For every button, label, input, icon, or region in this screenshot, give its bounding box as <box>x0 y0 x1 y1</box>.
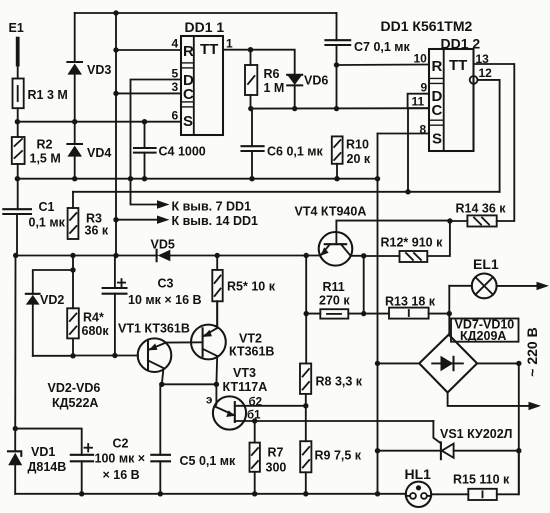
node C1/R2 on bus1 <box>15 176 20 181</box>
diode VD4 <box>74 122 76 144</box>
diode VD2 and resistor R4 loop <box>72 256 74 309</box>
svg-text:12: 12 <box>479 66 493 80</box>
svg-text:C3: C3 <box>158 277 174 291</box>
IC DD1.1 <box>181 36 223 135</box>
svg-text:HL1: HL1 <box>405 466 432 482</box>
svg-text:R5* 10 к: R5* 10 к <box>227 280 276 294</box>
svg-text:C: C <box>183 86 194 103</box>
svg-text:10: 10 <box>414 52 428 66</box>
svg-text:VD2-VD6: VD2-VD6 <box>48 381 101 395</box>
svg-text:6: 6 <box>172 109 179 123</box>
capacitor C7 <box>336 13 338 40</box>
node supply riser / bus3 <box>113 253 118 258</box>
output bubble pin12 <box>470 76 478 84</box>
wire pin11 riser to bus2 <box>407 108 409 192</box>
label box VD7-VD10 <box>451 319 519 342</box>
svg-text:11: 11 <box>412 95 425 109</box>
svg-text:DD1 2: DD1 2 <box>441 36 481 52</box>
svg-text:VD6: VD6 <box>304 74 328 88</box>
wire bridge right <box>477 362 519 364</box>
wire VT1 emitter to VT2 base <box>166 341 203 343</box>
svg-text:C: C <box>432 102 443 119</box>
wire ground bus1 <box>17 178 378 180</box>
resistor R14 <box>467 215 496 226</box>
wire VT4 emitter / R11 / R8 riser <box>305 256 307 364</box>
wire pin13 output to R14 <box>474 64 515 221</box>
diode VD3 <box>74 13 76 62</box>
resistor R11 <box>320 309 348 318</box>
svg-text:VD5: VD5 <box>151 238 175 252</box>
transistor VT4 <box>319 232 353 266</box>
pin 5 wire (D input) to ground arrow <box>131 80 182 205</box>
svg-text:× 16 В: × 16 В <box>103 468 140 482</box>
electrode E1 <box>16 39 20 65</box>
node bus1 end / S riser <box>375 176 380 181</box>
svg-text:С5 0,1 мк: С5 0,1 мк <box>180 454 237 468</box>
wire EL1/R13/bridge riser <box>448 286 450 335</box>
wire bottom ground bus <box>15 493 406 495</box>
wire C2 tap <box>15 429 82 455</box>
svg-text:0,1 мк: 0,1 мк <box>29 216 66 230</box>
svg-text:R11: R11 <box>323 280 345 294</box>
resistor R5 <box>216 256 218 270</box>
svg-text:К выв. 7 DD1: К выв. 7 DD1 <box>172 200 252 214</box>
svg-text:КТ117А: КТ117А <box>223 380 268 394</box>
svg-text:1,5 М: 1,5 М <box>30 152 61 166</box>
svg-text:R12* 910 к: R12* 910 к <box>381 236 444 250</box>
svg-text:C2: C2 <box>113 437 129 451</box>
svg-text:270 к: 270 к <box>319 294 350 308</box>
wire VT3 emitter riser <box>215 384 216 406</box>
svg-text:КД522А: КД522А <box>52 396 98 410</box>
wire K vyv.14 arrow from supply riser <box>116 219 158 221</box>
resistor R8 <box>300 364 311 394</box>
svg-text:VT1 КТ361В: VT1 КТ361В <box>118 322 190 336</box>
svg-text:TT: TT <box>449 57 467 74</box>
bridge VD7-VD10 <box>419 335 477 393</box>
svg-text:R2: R2 <box>37 138 53 152</box>
wire ground riser x=377.5 <box>377 134 379 494</box>
wire DD1.2 pin10 (R input) <box>337 64 430 67</box>
wire bridge left to ground riser <box>378 362 420 364</box>
svg-text:Д814В: Д814В <box>28 460 67 474</box>
svg-text:~ 220 В: ~ 220 В <box>524 327 540 376</box>
wire supply riser x=116 <box>115 13 117 256</box>
resistor R13 <box>364 313 389 315</box>
svg-text:9: 9 <box>421 81 428 95</box>
svg-text:R6: R6 <box>264 67 280 81</box>
wire VT4 base to R12/R14 junction <box>336 221 450 245</box>
svg-text:R: R <box>183 43 194 60</box>
IC DD1.2 <box>429 49 474 151</box>
svg-text:КД209А: КД209А <box>460 329 506 343</box>
resistor R1 <box>13 79 24 109</box>
wire VT2 emitter to R5 <box>216 301 218 328</box>
resistor R4 <box>67 308 79 338</box>
capacitor C1 <box>3 208 31 210</box>
capacitor C5 <box>159 384 161 455</box>
svg-text:VT2: VT2 <box>239 332 262 346</box>
wire top supply bus <box>75 12 337 14</box>
svg-text:300: 300 <box>266 461 287 475</box>
svg-text:C4 1000: C4 1000 <box>159 145 206 159</box>
svg-text:10 мк × 16 В: 10 мк × 16 В <box>128 293 202 307</box>
svg-text:680к: 680к <box>82 324 110 338</box>
svg-text:C7 0,1 мк: C7 0,1 мк <box>354 40 411 54</box>
wire VT4 collector to R12 <box>350 255 363 257</box>
resistor R9 <box>300 441 311 472</box>
svg-text:S: S <box>432 131 442 148</box>
wire pin12 output to bus2 <box>478 80 500 192</box>
capacitor C2 <box>71 454 93 456</box>
svg-text:VS1 КУ202Л: VS1 КУ202Л <box>440 427 512 441</box>
svg-text:1 М: 1 М <box>264 81 285 95</box>
svg-text:TT: TT <box>200 41 218 58</box>
svg-text:КТ361В: КТ361В <box>229 345 274 359</box>
wire bus2 (R3 top to DD1.2 pin12 net) <box>73 191 500 193</box>
svg-text:R10: R10 <box>346 138 369 152</box>
svg-text:VD1: VD1 <box>31 445 55 459</box>
svg-text:R15 110 к: R15 110 к <box>453 473 510 487</box>
svg-text:R4*: R4* <box>83 311 104 325</box>
svg-text:VD4: VD4 <box>87 146 111 160</box>
zener VD1 <box>8 451 21 456</box>
svg-text:VT3: VT3 <box>233 366 256 380</box>
svg-text:VD2: VD2 <box>40 293 64 307</box>
lamp EL1 <box>449 285 472 287</box>
svg-text:5: 5 <box>172 67 179 81</box>
node R1/R2 on S bus <box>15 119 20 124</box>
svg-text:4: 4 <box>172 37 179 51</box>
node VD4 on bus1 <box>72 176 77 181</box>
svg-text:C1: C1 <box>39 200 55 214</box>
svg-text:E1: E1 <box>9 21 24 35</box>
svg-text:S: S <box>183 113 193 130</box>
diode VD2 <box>26 293 40 295</box>
capacitor C6 <box>251 109 253 147</box>
svg-text:R14 36 к: R14 36 к <box>456 202 507 216</box>
wire bus3 (supply rail y=255.5) <box>16 255 157 257</box>
diode VD5 <box>156 250 158 261</box>
svg-text:VD3: VD3 <box>87 63 111 77</box>
wire b1 to VS1 gate <box>235 420 434 422</box>
wire EL1 to mains arrow <box>497 285 538 287</box>
svg-text:R: R <box>432 58 443 75</box>
pin 3 wire (C input) <box>116 92 181 94</box>
capacitor C4 <box>144 122 146 148</box>
wire bridge bottom to mains arrow <box>448 393 530 406</box>
wire DD1.1 pin1 output <box>223 50 295 75</box>
wire R11 right riser to VT4 collector <box>363 256 365 314</box>
node VD3/VD4 on S bus <box>72 119 77 124</box>
transistor VT2 <box>191 325 226 360</box>
transistor VT3 <box>213 396 246 429</box>
arrow K vyv.7 <box>157 200 170 208</box>
svg-text:13: 13 <box>476 52 490 66</box>
pin 11 box connector (D/C tie) <box>408 94 429 109</box>
resistor R12 <box>400 251 428 262</box>
wire left column to VD1 <box>14 256 16 452</box>
wire VT1 base (from R4/VD2) <box>73 355 138 357</box>
wire DD1.2 pin8 (S) to ground riser <box>378 133 430 135</box>
pin 4 wire (R input) <box>116 49 181 51</box>
svg-text:DD1 К561ТМ2: DD1 К561ТМ2 <box>381 18 473 34</box>
svg-text:100 мк ×: 100 мк × <box>95 452 146 466</box>
svg-text:3: 3 <box>172 80 179 94</box>
thyristor VS1 <box>378 450 441 452</box>
wire S-pin6 bus <box>17 121 181 123</box>
svg-text:EL1: EL1 <box>473 256 499 272</box>
wire b2 <box>235 405 306 407</box>
node top bus / riser <box>113 10 118 15</box>
svg-text:36 к: 36 к <box>85 224 109 238</box>
resistor R10 <box>332 136 343 163</box>
neon lamp HL1 <box>406 482 431 507</box>
capacitor C3 <box>114 256 116 289</box>
wire net R6/VD6/C7 bottom to DD1.2 pin11 <box>251 107 430 109</box>
wire VT2 collector down <box>215 356 218 384</box>
svg-text:С6 0,1 мк: С6 0,1 мк <box>267 145 324 159</box>
diode VD6 <box>287 74 302 76</box>
svg-text:VT4 КТ940А: VT4 КТ940А <box>295 205 367 219</box>
resistor R2 <box>12 137 25 164</box>
resistor R6 <box>250 50 252 65</box>
resistor R15 <box>431 493 468 495</box>
svg-text:1: 1 <box>226 37 233 51</box>
transistor VT1 <box>138 338 172 372</box>
svg-text:R8 3,3 к: R8 3,3 к <box>316 375 363 389</box>
svg-text:R13 18 к: R13 18 к <box>385 295 436 309</box>
resistor R7 <box>254 421 256 443</box>
svg-text:э: э <box>206 395 212 407</box>
svg-text:DD1 1: DD1 1 <box>185 19 225 35</box>
svg-text:R7: R7 <box>268 446 284 460</box>
svg-text:К выв. 14 DD1: К выв. 14 DD1 <box>172 214 259 228</box>
svg-text:R9 7,5 к: R9 7,5 к <box>315 449 362 463</box>
svg-text:R1 3 М: R1 3 М <box>28 88 68 102</box>
resistor R3 <box>68 208 79 239</box>
wire VT1/VT2 collector bus <box>162 383 217 385</box>
svg-text:20 к: 20 к <box>347 152 371 166</box>
